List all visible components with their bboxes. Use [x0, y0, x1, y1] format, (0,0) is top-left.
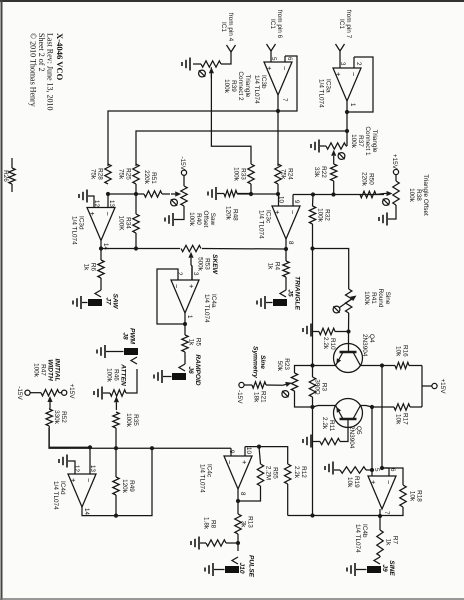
wire R11 bottom to ground [312, 441, 320, 443]
node IC4d pin13 junction [88, 445, 92, 449]
wire IC3b input stubs [271, 51, 285, 62]
svg-text:1: 1 [349, 103, 356, 107]
svg-text:Triangle: Triangle [371, 130, 378, 153]
svg-text:ATTEN: ATTEN [120, 363, 127, 386]
jack J7 SAW [88, 290, 119, 309]
svg-text:Triangle: Triangle [244, 75, 251, 98]
svg-text:8: 8 [239, 492, 246, 496]
resistor R52 330k [46, 409, 67, 426]
wire R47 wiper to R52 [48, 408, 51, 411]
svg-text:R11: R11 [328, 420, 335, 432]
ground at IC4d pin12 [59, 455, 67, 468]
ground at jack J9 [347, 563, 355, 576]
wire R5 to RAMPOID jack [184, 352, 186, 364]
svg-text:J10: J10 [238, 562, 245, 573]
svg-text:+: + [273, 210, 282, 215]
svg-text:75k: 75k [280, 169, 287, 180]
resistor R11 2.2k [320, 417, 340, 445]
wire IC4b output [379, 509, 381, 530]
wire bus IC3a-out vertical x131 [136, 131, 347, 166]
wire R22 right [333, 181, 335, 195]
title block [29, 33, 66, 111]
svg-text:Symmetry: Symmetry [252, 346, 259, 378]
svg-text:Connect 1: Connect 1 [364, 126, 371, 156]
ground at jack J7 [73, 296, 81, 309]
wire J7 ground stem [82, 302, 88, 304]
ground below R48 [208, 187, 216, 200]
wire pin9 net vertical x194.5 [293, 194, 384, 196]
wire IC4c pin10 stub [244, 447, 246, 456]
wire J9 ground stem [356, 569, 367, 571]
svg-text:R3: R3 [321, 383, 328, 392]
svg-text:R48: R48 [232, 209, 239, 221]
svg-text:IC4a: IC4a [210, 294, 217, 308]
svg-text:R8: R8 [210, 520, 217, 529]
ground below R11 [303, 435, 311, 448]
svg-text:R17: R17 [402, 413, 409, 425]
resistor R8 1.8k [203, 517, 227, 546]
svg-text:100k: 100k [223, 79, 230, 94]
node IC3d pin13 junction [106, 192, 110, 196]
svg-text:PULSE: PULSE [248, 555, 255, 578]
svg-text:© 2010 Thomas Henry: © 2010 Thomas Henry [29, 33, 38, 107]
ground at jack J10 [205, 563, 213, 576]
node IC3d output junction [99, 246, 103, 250]
resistor R26 75k clipped at page edge [2, 158, 15, 192]
wire IC3d pin12 to ground [88, 196, 94, 208]
svg-text:-15V: -15V [179, 157, 186, 171]
wire IC4c output [237, 489, 239, 514]
op-amp IC4b [354, 468, 396, 553]
svg-text:100k: 100k [233, 167, 240, 182]
svg-text:R40: R40 [195, 213, 202, 225]
svg-text:−: − [288, 210, 297, 215]
pot R53 SKEW [181, 245, 218, 274]
svg-text:Triangle Offset: Triangle Offset [422, 174, 429, 216]
svg-text:100k: 100k [188, 212, 195, 227]
svg-text:+: + [69, 478, 78, 483]
svg-text:TRIANGLE: TRIANGLE [294, 276, 301, 310]
ground below R39 [182, 58, 190, 71]
op-amp IC3c [258, 196, 301, 245]
svg-text:-15V: -15V [236, 390, 243, 404]
resistor R22 33k [313, 164, 337, 181]
wire R23 wiper to R21 [266, 384, 283, 386]
wire R22 left wiper arrow into R37 [331, 150, 336, 164]
svg-text:2N3904: 2N3904 [361, 334, 368, 357]
svg-text:+: + [265, 66, 274, 71]
svg-text:13: 13 [108, 200, 115, 207]
svg-text:Sine: Sine [259, 355, 266, 369]
wire R55 right to IC4c output [238, 486, 261, 501]
wire R33 right [250, 184, 252, 194]
node Q4 collector node [380, 363, 384, 367]
svg-text:R52: R52 [60, 411, 67, 423]
svg-text:+: + [369, 480, 378, 485]
svg-text:RAMPOID: RAMPOID [194, 354, 201, 385]
svg-text:R18: R18 [416, 490, 423, 502]
wire IC3d output [100, 241, 102, 261]
node IC3a feedback-output junction [345, 110, 349, 114]
svg-text:IC3a: IC3a [325, 79, 332, 93]
wire IC4b pin5 stub [371, 470, 373, 476]
wire R23 row [295, 366, 313, 408]
wire J10 ground stem [214, 569, 225, 571]
wire R32 left [312, 195, 315, 207]
svg-text:−: − [103, 212, 112, 217]
resistor R32 100k [309, 206, 330, 224]
pot R46 ATTEN [106, 363, 127, 410]
svg-text:IC3b: IC3b [260, 75, 267, 89]
svg-text:Round: Round [377, 289, 384, 308]
wire pin9 net vertical x448 [49, 428, 231, 448]
node pin9-net junction R35R49 line [114, 446, 118, 450]
svg-text:Q5: Q5 [355, 426, 362, 435]
svg-text:R16: R16 [402, 345, 409, 357]
svg-text:R32: R32 [324, 209, 331, 221]
svg-text:R49: R49 [128, 480, 135, 492]
node Q5 collector node [370, 405, 374, 409]
svg-text:100k: 100k [363, 291, 370, 306]
node IC4b pin6 junction [380, 466, 384, 470]
svg-text:100k: 100k [33, 363, 40, 378]
svg-text:R23: R23 [283, 358, 290, 370]
svg-text:+15V: +15V [439, 378, 446, 394]
transistor Q4 2N3904 [334, 334, 376, 373]
svg-text:1/4 TL074: 1/4 TL074 [258, 210, 265, 239]
wire Q4 emitter down [313, 365, 336, 367]
wire R40 right to ground [174, 206, 184, 220]
svg-text:220k: 220k [361, 172, 368, 187]
resistor R24 75k [275, 164, 294, 184]
resistor R51 220k [143, 170, 162, 197]
svg-text:IC1: IC1 [338, 19, 345, 29]
svg-text:+: + [240, 460, 249, 465]
wire R39 bottom to ground [193, 63, 201, 65]
svg-text:R34: R34 [125, 217, 132, 229]
svg-text:INITIAL: INITIAL [54, 358, 61, 381]
svg-text:R22: R22 [320, 166, 327, 178]
svg-text:R7: R7 [392, 536, 399, 545]
svg-text:+: + [88, 212, 97, 217]
entry arrow from pin 6 IC1 [267, 10, 284, 51]
node IC4d output-line junction at R49 line [114, 514, 118, 518]
wire R38 left [395, 175, 397, 181]
wire IC4a feedback loop [157, 269, 185, 324]
svg-text:2.2k: 2.2k [321, 417, 328, 430]
node IC4b pin5 junction [370, 468, 374, 472]
node emitter row left junction [310, 246, 314, 250]
entry arrow from pin 7 IC1 [336, 10, 353, 51]
svg-text:from pin 7: from pin 7 [345, 10, 352, 39]
node IC3a output bus junction [345, 129, 349, 133]
svg-text:Q4: Q4 [368, 334, 375, 343]
resistor R28 75k [90, 164, 112, 184]
resistor R18 10k [400, 485, 423, 507]
wire R35 right [115, 428, 117, 477]
svg-text:100k: 100k [106, 368, 113, 383]
wire J8 ground stem [106, 351, 124, 353]
svg-text:+: + [187, 284, 196, 289]
resistor R55 2.2M [257, 464, 278, 486]
svg-text:10: 10 [245, 447, 252, 454]
svg-text:IC1: IC1 [269, 19, 276, 29]
svg-text:R12: R12 [300, 466, 307, 478]
pot R38 Triangle Offset [383, 174, 429, 216]
terminal -15V below R21 [236, 382, 244, 404]
svg-text:R5: R5 [195, 338, 202, 347]
jack J10 PULSE [225, 555, 255, 578]
jack J5 TRIANGLE [273, 276, 301, 310]
jack J6 RAMPOID [172, 354, 201, 385]
resistor R12 2.2k [285, 464, 308, 484]
svg-text:IC1: IC1 [220, 22, 227, 32]
wire R48 top [237, 193, 251, 195]
node R32 left junction [311, 192, 315, 196]
svg-text:IC3c: IC3c [265, 210, 272, 224]
terminal -15V below R47 [16, 386, 30, 400]
pot R23 Sine Symmetry 50k [276, 358, 298, 397]
svg-text:2.2k: 2.2k [322, 337, 329, 350]
svg-text:PWM: PWM [129, 328, 136, 345]
wire IC4b pin6 stub [382, 468, 389, 476]
border right edge [0, 598, 464, 600]
resistor R21 18k [252, 382, 266, 403]
wire R19 bottom to ground [334, 469, 340, 471]
svg-text:12: 12 [73, 465, 80, 472]
node R33/R48 junction [249, 192, 253, 196]
svg-text:1/4 TL074: 1/4 TL074 [354, 524, 361, 553]
wire from-pin4 arrow to R39 top [221, 52, 231, 64]
svg-text:IC4c: IC4c [206, 464, 213, 478]
wire R37 top [346, 145, 347, 147]
wire R12 line [245, 447, 288, 516]
wire R16 bottom to collector node [382, 365, 395, 367]
wire R46 bottom to ground [103, 392, 110, 394]
pot R37 Triangle Connect 1 [326, 126, 378, 159]
svg-text:−: − [225, 460, 234, 465]
resistor R48 120k [224, 190, 239, 221]
wire R10 top [335, 331, 349, 333]
node IC4b output junction [378, 514, 382, 518]
ground at jack J5 [257, 296, 265, 309]
pot R39 Triangle Connect 2 [199, 61, 251, 101]
svg-text:1/4 TL074: 1/4 TL074 [318, 79, 325, 108]
svg-text:SKEW: SKEW [211, 254, 218, 275]
svg-text:75k: 75k [90, 169, 97, 180]
svg-text:R39: R39 [230, 80, 237, 92]
svg-text:J8: J8 [122, 332, 129, 340]
svg-text:75k: 75k [118, 169, 125, 180]
svg-text:X-4046 VCO: X-4046 VCO [55, 33, 65, 81]
svg-text:14: 14 [83, 508, 90, 515]
svg-text:1/4 TL074: 1/4 TL074 [71, 216, 78, 245]
svg-text:from pin 6: from pin 6 [276, 10, 283, 39]
svg-text:R19: R19 [353, 476, 360, 488]
svg-text:1/4 TL074: 1/4 TL074 [199, 464, 206, 493]
svg-text:Offset: Offset [202, 211, 209, 228]
wire IC4d output [82, 448, 152, 515]
resistor R50 220k [360, 172, 376, 198]
op-amp IC4a [171, 272, 217, 323]
wire R47 top [59, 392, 62, 394]
wire R10 bottom to ground [312, 331, 319, 333]
wire R19 top [366, 469, 372, 471]
resistor R34 100K [118, 214, 140, 233]
wire R51 node to pin13 node [108, 193, 136, 195]
op-amp IC3b [253, 57, 293, 104]
svg-text:R55: R55 [272, 467, 279, 479]
node IC4c output junction [236, 499, 240, 503]
svg-text:1/4 TL074: 1/4 TL074 [52, 481, 59, 510]
svg-text:−: − [280, 66, 289, 71]
svg-text:220k: 220k [143, 170, 150, 185]
svg-text:100k: 100k [317, 208, 324, 223]
svg-text:from pin 4: from pin 4 [227, 13, 234, 42]
wire IC4d pin12 to ground [68, 461, 75, 474]
svg-text:1k: 1k [83, 264, 90, 272]
pot R41 Sine Round [333, 289, 391, 313]
wire R41 line right to Q4 base [348, 313, 350, 332]
wire R37 bottom to ground [320, 145, 326, 147]
resistor R33 100k [233, 164, 255, 184]
wire R8 bottom to ground [200, 542, 206, 544]
node R25/R51 junction [134, 192, 138, 196]
wire R6 to SAW jack [100, 278, 102, 290]
wire Q5 collector line to IC4b pin5 [371, 407, 373, 470]
wire IC4b-out down vertical [288, 515, 380, 517]
node Q4 base junction [346, 329, 350, 333]
wire R49 right [115, 495, 117, 516]
jack J8 PWM [122, 328, 139, 364]
wire IC3b feedback loop [278, 56, 297, 111]
pot R47 INITIAL WIDTH [33, 358, 61, 408]
svg-text:−: − [84, 478, 93, 483]
wire IC4d pin13 stub [89, 447, 91, 474]
wire Q4 base [348, 332, 350, 353]
svg-text:18k: 18k [253, 392, 260, 403]
node IC4a output junction [183, 322, 187, 326]
svg-text:IC4d: IC4d [59, 481, 66, 495]
resistor R10 2.2k [319, 328, 336, 350]
terminal +15V right [432, 378, 446, 394]
svg-text:−: − [172, 284, 181, 289]
wire Q5 collector up [360, 406, 372, 408]
resistor R35 100k [113, 412, 139, 428]
svg-text:2N3904: 2N3904 [348, 426, 355, 449]
wire J6 ground stem [163, 376, 172, 378]
svg-text:R47: R47 [40, 364, 47, 376]
wire R38 right to ground [388, 205, 396, 219]
svg-text:1: 1 [186, 315, 193, 319]
resistor R4 1k [267, 261, 290, 277]
resistor R7 1k [377, 530, 399, 556]
node R55 tap junction [257, 445, 261, 449]
resistor R3 390ohm [309, 377, 327, 397]
op-amp IC3d [71, 200, 116, 250]
ground at IC3d pin12 [79, 190, 87, 203]
wire R34 right [135, 233, 137, 249]
wire R11 top to Q5 base [340, 419, 348, 442]
wire bus IC3b-out vertical x111 [108, 111, 278, 166]
svg-text:−: − [384, 480, 393, 485]
wire Q4 collector up [360, 365, 382, 367]
svg-text:-15V: -15V [16, 386, 23, 400]
svg-text:1/4 TL074: 1/4 TL074 [253, 75, 260, 104]
wire R47 bottom [30, 392, 41, 394]
svg-text:R46: R46 [113, 369, 120, 381]
svg-text:+: + [334, 72, 343, 77]
ground at jack J6 [154, 370, 162, 383]
wire IC3c pin10 stub [278, 194, 280, 206]
svg-text:100k: 100k [408, 188, 415, 203]
svg-text:R21: R21 [260, 391, 267, 403]
wire +15V right down [422, 385, 432, 387]
wire bus IC3c-out vertical x248.5 upper [202, 248, 286, 251]
ground below R37 [311, 140, 319, 153]
wire R25 right [135, 184, 137, 214]
svg-text:1k: 1k [188, 339, 195, 347]
svg-text:10k: 10k [409, 491, 416, 502]
resistor R5 1k [182, 335, 202, 352]
wire R55 left [259, 447, 261, 464]
svg-text:33k: 33k [313, 167, 320, 178]
node IC4d output-line junction at x448 [150, 446, 154, 450]
wire emitter row long line [312, 249, 314, 516]
svg-text:R13: R13 [247, 516, 254, 528]
svg-text:−: − [349, 72, 358, 77]
svg-text:Sine: Sine [384, 292, 391, 305]
svg-text:+15V: +15V [68, 383, 75, 399]
transistor Q5 2N3904 [334, 399, 363, 449]
svg-text:R6: R6 [90, 263, 97, 272]
wire IC3c pin9 stub [292, 195, 294, 207]
svg-text:2.2M: 2.2M [265, 466, 272, 480]
node R24/pin10 junction [276, 192, 280, 196]
ground at R40 right [165, 213, 173, 226]
svg-text:IC3d: IC3d [78, 216, 85, 230]
svg-text:IC4b: IC4b [361, 524, 368, 538]
svg-text:3k: 3k [240, 521, 247, 529]
wire R51 bottom [136, 193, 144, 195]
wire R46 top to PWM contact [126, 369, 137, 393]
svg-text:R4: R4 [274, 262, 281, 271]
svg-text:SAW: SAW [112, 293, 119, 309]
svg-text:500k: 500k [197, 257, 204, 272]
svg-text:R25: R25 [125, 168, 132, 180]
svg-text:100k: 100k [125, 413, 132, 428]
node R13/R8 junction [236, 541, 240, 545]
svg-text:330k: 330k [53, 410, 60, 425]
resistor R49 120k [113, 477, 135, 495]
svg-text:10k: 10k [346, 477, 353, 488]
wire IC3c output [285, 239, 287, 261]
svg-text:WIDTH: WIDTH [47, 359, 54, 381]
svg-text:R53: R53 [204, 258, 211, 270]
svg-text:R50: R50 [368, 173, 375, 185]
node emitter row right junction [310, 513, 314, 517]
entry arrow from pin 4 IC1 [220, 13, 236, 52]
svg-text:1k: 1k [385, 539, 392, 547]
wire R13 right [237, 534, 239, 551]
wire pin10 node vertical [237, 193, 279, 195]
terminal +15V above R47 [62, 383, 75, 399]
resistor R25 75k [118, 164, 140, 184]
wire R53 wiper to IC4a pin3 [191, 265, 192, 280]
svg-text:R37: R37 [357, 135, 364, 147]
svg-text:3: 3 [192, 272, 199, 276]
svg-text:1k: 1k [267, 263, 274, 271]
